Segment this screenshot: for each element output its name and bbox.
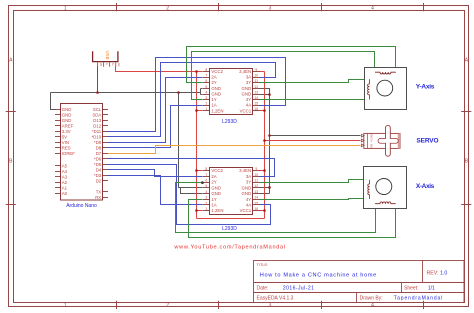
svg-text:1,2EN: 1,2EN xyxy=(211,108,223,113)
svg-text:3Y: 3Y xyxy=(246,180,251,185)
svg-text:10: 10 xyxy=(254,173,258,177)
svg-text:*D3: *D3 xyxy=(94,173,102,178)
svg-text:SIG: SIG xyxy=(370,144,373,148)
svg-text:*D6: *D6 xyxy=(94,156,102,161)
junction 5V at U2 1,2EN xyxy=(195,209,198,212)
svg-text:GND: GND xyxy=(62,107,72,112)
wire GND right vertical U1 to U2 xyxy=(260,89,270,194)
wire 5V bottom jog xyxy=(197,218,265,220)
wire D3 to U2 1A xyxy=(108,176,203,205)
svg-text:GND: GND xyxy=(211,92,221,97)
svg-text:14: 14 xyxy=(254,96,258,100)
svg-text:3Y: 3Y xyxy=(246,80,251,85)
wire U2 3Y to X-motor left coil top xyxy=(260,180,370,183)
wire 5V to U2 pin16 VCC1 xyxy=(260,210,265,212)
svg-text:2: 2 xyxy=(205,102,207,106)
svg-text:Sheet:: Sheet: xyxy=(404,285,418,291)
svg-text:Y-Axis: Y-Axis xyxy=(416,83,435,90)
svg-text:2A: 2A xyxy=(211,174,216,179)
svg-text:AREF: AREF xyxy=(62,123,74,128)
svg-text:VCC1: VCC1 xyxy=(240,208,252,213)
svg-text:14: 14 xyxy=(254,196,258,200)
svg-text:1: 1 xyxy=(64,303,67,309)
wire D8 to U1 1A xyxy=(108,106,203,148)
svg-text:12: 12 xyxy=(254,184,258,188)
svg-text:10: 10 xyxy=(254,74,258,78)
junction GND at U2 pin12 xyxy=(268,186,271,189)
wire 5V right vertical xyxy=(264,72,266,219)
wire 5V to U2 pin9 3,4EN xyxy=(260,170,265,172)
junction 5V at U1 VCC1 xyxy=(263,109,266,112)
svg-text:GND: GND xyxy=(370,134,373,140)
svg-text:1A: 1A xyxy=(211,202,216,207)
svg-text:GN: GN xyxy=(117,63,120,67)
L293D U1 xyxy=(203,68,260,125)
svg-text:13: 13 xyxy=(254,90,258,94)
svg-text:VB: VB xyxy=(99,63,102,67)
wire D7 to servo SIG xyxy=(108,146,361,154)
svg-text:GND: GND xyxy=(242,185,252,190)
stepper motor X-Axis M2 xyxy=(364,167,435,209)
svg-text:3A: 3A xyxy=(246,75,251,80)
svg-text:Arduino Nano: Arduino Nano xyxy=(66,203,97,209)
svg-text:15: 15 xyxy=(254,201,258,205)
wire D9 to U1 2A xyxy=(108,78,203,143)
svg-text:4: 4 xyxy=(371,5,374,11)
svg-text:9: 9 xyxy=(255,167,257,171)
svg-text:1: 1 xyxy=(64,5,67,11)
svg-text:USB: USB xyxy=(105,51,110,60)
svg-text:3: 3 xyxy=(205,96,207,100)
svg-text:D8: D8 xyxy=(96,145,102,150)
wire D10 to U1 3A xyxy=(108,63,276,137)
svg-text:3: 3 xyxy=(269,5,272,11)
svg-text:1A: 1A xyxy=(211,103,216,108)
svg-text:How to Make a CNC machine at h: How to Make a CNC machine at home xyxy=(260,272,377,278)
wire 5V to U2 VCC2 xyxy=(197,170,203,172)
svg-text:A1: A1 xyxy=(62,185,68,190)
svg-text:4A: 4A xyxy=(246,103,251,108)
svg-text:D7: D7 xyxy=(96,151,102,156)
svg-text:8: 8 xyxy=(205,68,207,72)
svg-text:3.3V: 3.3V xyxy=(62,129,71,134)
wire 5V from USB to U1 VCC2 xyxy=(116,67,203,72)
junction bus / U2 GND drop xyxy=(177,91,180,94)
wire D6 to U2 3A xyxy=(108,159,275,177)
svg-text:EasyEDA V4.1.3: EasyEDA V4.1.3 xyxy=(257,295,294,301)
svg-text:2016-Jul-21: 2016-Jul-21 xyxy=(283,285,314,291)
wire U1 2Y to Y-motor top coil right xyxy=(187,47,396,83)
svg-text:D2: D2 xyxy=(96,178,102,183)
svg-text:D-: D- xyxy=(105,63,108,66)
svg-text:6: 6 xyxy=(205,79,207,83)
svg-text:4: 4 xyxy=(205,190,207,194)
svg-text:*D5: *D5 xyxy=(94,162,102,167)
wire GND bus horizontal xyxy=(51,89,203,95)
svg-text:GND: GND xyxy=(211,86,221,91)
wire GND bus drop to Arduino GND pin xyxy=(51,93,56,110)
junction 5V at U1 VCC2 xyxy=(195,70,198,73)
svg-text:9: 9 xyxy=(255,68,257,72)
svg-text:4: 4 xyxy=(205,90,207,94)
junction 5V at U2 VCC1 xyxy=(263,209,266,212)
svg-text:7: 7 xyxy=(205,74,207,78)
junction GND at U1 pin13 xyxy=(268,93,271,96)
junction 5V at servo V+ xyxy=(263,139,266,142)
wire U2 1Y to X-motor bottom coil right xyxy=(189,200,396,238)
junction 5V at U2 VCC2 xyxy=(195,169,198,172)
svg-text:8: 8 xyxy=(205,167,207,171)
junction 5V at U2 3,4EN xyxy=(263,169,266,172)
svg-text:3: 3 xyxy=(269,303,272,309)
svg-text:RX: RX xyxy=(95,195,101,200)
svg-text:GND: GND xyxy=(62,118,72,123)
svg-text:2: 2 xyxy=(166,5,169,11)
svg-text:11: 11 xyxy=(255,178,259,182)
svg-text:7: 7 xyxy=(205,173,207,177)
svg-text:IOREF: IOREF xyxy=(62,151,76,156)
svg-text:2Y: 2Y xyxy=(211,180,216,185)
svg-text:A4: A4 xyxy=(62,169,68,174)
wire D5 to U2 4A xyxy=(108,165,271,225)
svg-text:VIN: VIN xyxy=(62,140,69,145)
svg-text:5: 5 xyxy=(205,184,207,188)
wire U1 4Y to Y-motor left coil bottom xyxy=(260,99,370,101)
svg-text:15: 15 xyxy=(254,102,258,106)
wire 5V left vertical xyxy=(196,72,198,219)
svg-text:5: 5 xyxy=(205,85,207,89)
wire GND from USB pin down to GND bus xyxy=(97,67,99,93)
wire D11 to U1 4A xyxy=(108,58,286,132)
svg-text:TX: TX xyxy=(96,189,102,194)
svg-text:1: 1 xyxy=(205,207,207,211)
svg-text:GND: GND xyxy=(62,112,72,117)
svg-text:3A: 3A xyxy=(246,174,251,179)
svg-text:A0: A0 xyxy=(62,191,68,196)
svg-text:L293D: L293D xyxy=(222,226,237,232)
svg-text:X-Axis: X-Axis xyxy=(416,183,435,190)
stepper motor Y-Axis M1 xyxy=(365,68,435,110)
svg-text:4: 4 xyxy=(371,303,374,309)
wire 5V to U2 pin1 1,2EN xyxy=(197,210,203,212)
svg-text:SCL: SCL xyxy=(93,107,102,112)
svg-text:GND: GND xyxy=(242,191,252,196)
wire D4 to U2 2A xyxy=(108,170,203,177)
svg-text:2: 2 xyxy=(166,303,169,309)
wire 5V to U1 pin1 1,2EN xyxy=(197,110,203,112)
junction 5V at U1 1,2EN xyxy=(195,109,198,112)
svg-text:GND: GND xyxy=(211,191,221,196)
svg-text:L293D: L293D xyxy=(222,119,237,125)
wire U1 3Y to Y-motor left coil top xyxy=(260,80,370,83)
junction GND at servo xyxy=(268,134,271,137)
svg-text:www.YouTube.com/TapendraMandal: www.YouTube.com/TapendraMandal xyxy=(173,244,285,250)
wire U1 1Y to Y-motor top coil left xyxy=(192,52,375,100)
wire 5V to U1 pin16 VCC1 xyxy=(260,110,265,112)
svg-text:16: 16 xyxy=(254,207,258,211)
svg-text:VCC2: VCC2 xyxy=(211,69,223,74)
servo motor M3 xyxy=(361,125,438,156)
svg-text:1: 1 xyxy=(205,107,207,111)
wire GND drop to U2 GND pins xyxy=(179,93,203,194)
svg-text:D13: D13 xyxy=(93,118,101,123)
svg-text:*D10: *D10 xyxy=(92,134,102,139)
svg-text:4A: 4A xyxy=(246,202,251,207)
wire U2 2Y to X-motor bottom coil left xyxy=(176,183,376,233)
svg-text:2: 2 xyxy=(205,201,207,205)
svg-text:13: 13 xyxy=(254,190,258,194)
svg-text:GND: GND xyxy=(211,185,221,190)
svg-text:3: 3 xyxy=(205,196,207,200)
svg-text:2Y: 2Y xyxy=(211,80,216,85)
svg-text:TITLE:: TITLE: xyxy=(257,262,269,267)
svg-text:D4: D4 xyxy=(96,167,102,172)
svg-text:SERVO: SERVO xyxy=(416,138,438,145)
svg-text:*D11: *D11 xyxy=(92,129,102,134)
svg-text:GND: GND xyxy=(242,86,252,91)
svg-text:2A: 2A xyxy=(211,75,216,80)
svg-text:5V: 5V xyxy=(62,134,67,139)
svg-text:REV:: REV: xyxy=(427,271,439,277)
svg-text:D12: D12 xyxy=(93,123,101,128)
svg-text:1Y: 1Y xyxy=(211,197,216,202)
svg-text:16: 16 xyxy=(254,107,258,111)
junction mark at U2 pin 2Y xyxy=(201,181,204,184)
svg-text:3,4EN: 3,4EN xyxy=(239,168,251,173)
L293D U2 xyxy=(203,167,260,232)
svg-text:6: 6 xyxy=(205,178,207,182)
svg-text:3,4EN: 3,4EN xyxy=(239,69,251,74)
svg-text:4Y: 4Y xyxy=(246,97,251,102)
wire GND to servo xyxy=(270,135,361,137)
svg-text:1/1: 1/1 xyxy=(428,285,435,291)
wire U2 4Y to X-motor left coil bottom xyxy=(260,199,370,200)
svg-text:A5: A5 xyxy=(62,163,68,168)
svg-text:VCC1: VCC1 xyxy=(240,108,252,113)
svg-text:A3: A3 xyxy=(62,174,68,179)
svg-text:A2: A2 xyxy=(62,180,68,185)
svg-text:VCC2: VCC2 xyxy=(211,168,223,173)
svg-text:SDA: SDA xyxy=(92,112,101,117)
wire 5V to servo V+ xyxy=(265,140,361,142)
svg-text:11: 11 xyxy=(255,79,259,83)
svg-text:12: 12 xyxy=(254,85,258,89)
svg-text:1Y: 1Y xyxy=(211,97,216,102)
wire 5V to U1 pin9 3,4EN xyxy=(260,71,265,73)
svg-text:1.0: 1.0 xyxy=(440,271,447,277)
svg-text:Drawn By:: Drawn By: xyxy=(360,295,383,301)
USB connector J1 xyxy=(93,51,121,67)
svg-text:Date:: Date: xyxy=(257,285,269,291)
svg-text:1,2EN: 1,2EN xyxy=(211,208,223,213)
svg-text:*D9: *D9 xyxy=(94,140,102,145)
svg-text:TapendraMandal: TapendraMandal xyxy=(394,295,443,301)
svg-text:4Y: 4Y xyxy=(246,197,251,202)
svg-text:RES: RES xyxy=(62,145,71,150)
Arduino Nano U3 xyxy=(55,104,108,209)
svg-text:GND: GND xyxy=(242,92,252,97)
junction USB GND / bus xyxy=(96,91,99,94)
